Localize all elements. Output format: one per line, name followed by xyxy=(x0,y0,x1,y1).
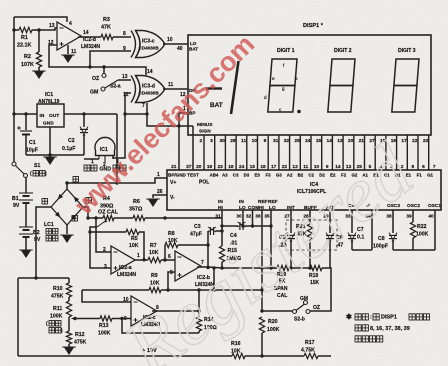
resistor R17 xyxy=(304,353,318,358)
op-amp IC2-b xyxy=(175,251,201,281)
wire R10 to R11 xyxy=(68,297,70,301)
wire R1 left lead xyxy=(14,29,19,31)
wire IC2-b pin5 to y290 rail xyxy=(168,272,175,290)
wire BUFF column xyxy=(309,210,311,224)
IC IC4 box xyxy=(167,170,441,210)
wire IC3-c input pin 9 from feedback net xyxy=(90,51,131,67)
wire INT column xyxy=(290,210,292,233)
node junction bridge-right/rail xyxy=(86,216,89,219)
pot R4 wiper arrow xyxy=(97,221,106,228)
node junction R7/R8 xyxy=(163,258,166,261)
wire IN HI column xyxy=(221,210,223,246)
wire bridge left to divider rail xyxy=(36,207,51,278)
wire R3 to IC3-c input pin 8 xyxy=(113,36,131,38)
resistor R9 xyxy=(149,287,161,292)
wire osc bottom row xyxy=(393,249,435,251)
diode bridge LC1 bottom-right xyxy=(67,207,83,225)
wire IC3-c output pin 10 to display LO BAT pin 40 xyxy=(163,43,188,45)
node junction left rail / V+ feed xyxy=(12,112,15,115)
node junction reflo-col/out-row xyxy=(269,266,272,269)
node junction GND rail xyxy=(48,153,51,156)
capacitor C8 xyxy=(389,234,397,236)
wire IC2-c output row xyxy=(152,310,199,312)
wire bottom +19V rail xyxy=(18,355,232,357)
node junction y67/x90 xyxy=(88,65,91,68)
wire COM column xyxy=(252,210,254,226)
wire bus display to IC4 (22 lines) xyxy=(203,135,205,170)
node junction V+ riser xyxy=(115,181,118,184)
wire R13 to pin 9 xyxy=(112,318,131,320)
display digit 2 eight outline xyxy=(328,59,355,112)
wire divider top rail xyxy=(18,277,69,279)
wire IC2-b output row y268 xyxy=(197,267,277,268)
resistor R1 xyxy=(19,27,32,32)
resistor R15 xyxy=(219,246,224,262)
wire OZ contact branch xyxy=(103,67,105,73)
resistor R4 (pot) xyxy=(103,215,114,220)
switch S1 bottom contact xyxy=(24,174,28,178)
wire S2-b left contact to REF HI column xyxy=(262,310,293,312)
pot R11 wiper arrow xyxy=(72,318,76,320)
capacitor C7 xyxy=(348,234,356,236)
wire IN LO column xyxy=(242,210,244,226)
op-amp IC2-a xyxy=(111,246,135,274)
diode bridge LC1 top-left xyxy=(51,189,67,207)
resistor R11 (pot) xyxy=(66,301,71,317)
node junction R11 wiper xyxy=(73,317,76,320)
node junction x199/y290 xyxy=(197,288,200,291)
node junction reflo top row xyxy=(269,224,272,227)
ground below IC1 xyxy=(45,157,56,165)
wire IC2-d output to R3 xyxy=(78,36,101,38)
wire bridge right to R4 rail xyxy=(83,207,88,218)
wire R18 right to OZ contact column xyxy=(310,268,331,311)
node junction R5 rail tap xyxy=(88,230,91,233)
label TO-92 pinout (chinese) out GND in xyxy=(84,165,90,171)
wire R20 bottom to +19V rail xyxy=(261,333,263,356)
wire bridge bottom to ground xyxy=(66,225,68,234)
resistor R8 left lead xyxy=(164,245,166,260)
switch S2-a lever xyxy=(105,80,118,88)
wire C1 bottom lead xyxy=(25,135,27,155)
wire REF LO column xyxy=(270,210,272,268)
resistor R18 xyxy=(310,265,322,270)
capacitor C2 xyxy=(80,128,88,130)
capacitor C1 xyxy=(20,130,32,132)
wire ground rail C1-C2 xyxy=(26,154,84,156)
capacitor C6 xyxy=(326,234,334,236)
resistor R8 xyxy=(165,242,178,247)
op-amp IC2-d xyxy=(57,22,81,50)
node junction IC2-a out xyxy=(142,258,145,261)
node junction bridge top xyxy=(65,181,68,184)
ground below B2 xyxy=(21,250,32,258)
display digit 1 (one) segment xyxy=(231,61,239,114)
wire left frame vertical xyxy=(17,278,19,356)
switch S2-b lever xyxy=(296,304,305,311)
note line 1 (chinese) - attention DISP1 unused xyxy=(355,314,361,320)
wire S1 to B1 xyxy=(25,177,27,193)
wire OSC3 column xyxy=(392,210,394,233)
wire A/Z column xyxy=(329,210,331,233)
node junction R1/R2 xyxy=(37,28,40,31)
wire top rail from left rail to op-amp IC2-d pin 4 xyxy=(14,17,67,22)
wire R11 to R12 xyxy=(68,317,70,331)
wire R8 right lead to C3 column xyxy=(178,244,208,246)
node junction C1 top xyxy=(24,112,27,115)
switch S1 top contact xyxy=(12,162,16,166)
ground at IC4 V- xyxy=(148,199,159,207)
node junction INT/span row xyxy=(289,266,292,269)
wire R5 feedback rail xyxy=(90,231,126,233)
label R11 (chinese) zero-set line2 xyxy=(49,328,55,334)
wire Cref- column xyxy=(371,210,373,250)
node junction R8 top xyxy=(163,216,166,219)
switch S2-b GM contact xyxy=(304,301,308,305)
node junction x125/y114 xyxy=(123,112,126,115)
node junction IC2-c out/R14 xyxy=(197,309,200,312)
watermark red elecfans xyxy=(68,29,260,221)
wire R2 bottom lead xyxy=(38,67,40,71)
transistor-outline IC1 TO-92 package xyxy=(95,137,115,155)
capacitor C5 xyxy=(287,234,295,236)
capacitor C3 xyxy=(209,227,211,235)
resistor R12 xyxy=(66,331,71,344)
label LC1 (chinese) sensor unit xyxy=(46,229,52,235)
wire OSC2 column xyxy=(412,210,414,222)
pin stubs of TO-92 xyxy=(98,156,100,160)
display digit 1 eight outline xyxy=(268,59,297,112)
display DISP1 box xyxy=(188,35,431,135)
diode bridge LC1 top-right xyxy=(67,189,83,207)
op-amp IC2-c xyxy=(131,296,157,326)
wire tie x125 to x147 xyxy=(125,113,147,115)
resistor R5 xyxy=(126,229,139,234)
wire IC2-c feedback row xyxy=(122,319,199,334)
node junction x214/y290 xyxy=(212,288,215,291)
wire REF HI column long xyxy=(261,210,263,311)
label blue lead (chinese) xyxy=(42,199,48,205)
wire cref bottom row xyxy=(352,249,372,251)
node junction y67/OZ branch xyxy=(102,65,105,68)
wire R12 bottom lead xyxy=(68,344,70,347)
node junction C2 top xyxy=(82,112,85,115)
resistor R20 xyxy=(259,317,264,333)
resistor R19 (pot) xyxy=(277,265,289,270)
node junction BUFF/span row xyxy=(308,266,311,269)
wire left rail vertical xyxy=(13,17,15,162)
node junction ref divider bottom xyxy=(260,354,263,357)
wire V+ rail (bridge top to IC4 pin1) xyxy=(67,178,167,183)
wire B2 to ground xyxy=(25,237,27,250)
label white lead (chinese) xyxy=(72,216,78,222)
resistor R16 xyxy=(232,353,245,358)
wire R4 to R6 xyxy=(114,217,133,219)
wire TO-92 pin1 to C2 column xyxy=(84,158,99,160)
switch S2-a GM contact xyxy=(101,87,105,91)
ground below bridge xyxy=(62,235,73,243)
node junction INHI/C4 row xyxy=(220,224,223,227)
wire R11 wiper to R13 xyxy=(75,318,100,320)
wire R5 to IC2-a output node xyxy=(139,232,144,259)
node junction C3/IN-HI column xyxy=(220,229,223,232)
resistor R21 xyxy=(307,224,312,240)
node junction pin7/x125 tie xyxy=(145,112,148,115)
node junction refhi/s2b xyxy=(260,309,263,312)
resistor R7 xyxy=(148,257,161,262)
wire S2-a common to IC3-d input pin 13 xyxy=(118,79,131,81)
ground at IC2-d pin 11 xyxy=(63,55,74,63)
node junction INLO/C4 row xyxy=(241,224,244,227)
resistor R14 xyxy=(196,317,201,331)
note line 3 (chinese) - tie to case xyxy=(355,336,361,342)
wire IC3-d output pin 11 to display DP pin 12 xyxy=(163,88,188,90)
capacitor C1 top lead xyxy=(25,114,27,130)
wire x214 tie xyxy=(213,268,215,290)
wire OSC1 column xyxy=(434,210,436,250)
wire IC3-d pin 7 to BP net xyxy=(147,103,193,126)
watermark ghost registered xyxy=(108,126,428,366)
node junction left-rail/R1 xyxy=(12,28,15,31)
battery B1 xyxy=(19,192,33,194)
voltage regulator IC1 box xyxy=(37,104,64,127)
node junction R8/C3 column xyxy=(206,243,209,246)
wire display BP net down to IC4 pin 21 xyxy=(178,126,180,170)
node junction out-row/INHI col xyxy=(220,266,223,269)
note line 2 (chinese) - leads 8 16 37 38 39 xyxy=(355,325,361,331)
wire R2 top lead xyxy=(38,30,40,52)
wire IC1 OUT to V+ riser xyxy=(64,113,117,115)
resistor R2 xyxy=(36,52,41,67)
display digit 3 eight outline xyxy=(392,59,419,112)
wire IC2-a output to R7 xyxy=(135,259,148,261)
wire R7 to IC2-b inverting input pin 6 xyxy=(161,259,175,261)
wire sensor rail to R4 xyxy=(88,217,103,219)
label green lead (chinese) xyxy=(86,198,92,204)
node junction refhi/y290 xyxy=(260,288,263,291)
wire bridge top stub xyxy=(66,183,68,189)
wire R14 bottom to feedback row xyxy=(198,331,200,333)
resistor R10 xyxy=(66,283,71,297)
wire R19 to R18 xyxy=(289,267,310,269)
wire IC2-d noninverting input loop to OZ/GM net xyxy=(49,45,146,75)
wire left rail to IC1 IN xyxy=(14,113,37,115)
switch S1 lever xyxy=(16,166,25,175)
label LC1 (chinese) unit xyxy=(46,236,52,242)
wire C4 row xyxy=(222,225,238,227)
wire IC4 V- pin 26 stub xyxy=(153,195,167,198)
wire R6 to IN HI column xyxy=(145,217,222,219)
ground below R2 xyxy=(34,71,45,79)
node junction BP riser xyxy=(177,124,180,127)
wire output node up to y290 rail xyxy=(198,290,200,311)
wire IC3-d input pin 12 down to TO-92 pin 3 column xyxy=(113,93,131,158)
label red lead (chinese) xyxy=(73,177,79,183)
switch S2-a OZ contact xyxy=(102,74,106,78)
resistor R14 top lead xyxy=(198,311,200,317)
wire R15 bottom to out row xyxy=(221,262,223,268)
xor gate IC3-c xyxy=(131,31,165,58)
wire IC2-d pin 11 stub xyxy=(67,45,69,54)
switch S2-b left contact xyxy=(293,310,297,314)
node junction pin9/R13 xyxy=(120,317,123,320)
resistor R3 xyxy=(101,34,113,39)
resistor R6 xyxy=(133,215,145,220)
resistor R22 xyxy=(410,222,415,238)
wire rail y290 left drop to IC2-c pin 10 xyxy=(82,290,131,302)
capacitor C4 xyxy=(239,222,241,230)
diode bridge LC1 bottom-left xyxy=(51,207,67,225)
wire Cref+ column xyxy=(351,210,353,233)
wire B1 to B2 xyxy=(25,203,27,227)
node junction sensor-rail/divider xyxy=(34,276,37,279)
node junction pin5 rail xyxy=(166,288,169,291)
node junction rail-y218/x96 xyxy=(94,216,97,219)
wire R4 wiper to feedback rail xyxy=(90,227,111,268)
wire IC1 GND stub xyxy=(49,127,51,155)
wire BP riser to display pin 1 xyxy=(179,113,188,126)
node junction C4/COM xyxy=(251,224,254,227)
dashed calibration box xyxy=(286,220,337,250)
node junction out-row/C3col xyxy=(206,266,209,269)
wire V+ riser down to V+ rail xyxy=(116,114,118,183)
wire out row to R19 xyxy=(271,267,277,269)
ground below R12 xyxy=(64,347,75,355)
xor gate IC3-d xyxy=(131,76,165,103)
resistor R13 xyxy=(100,316,112,321)
wire R10 top lead xyxy=(68,278,70,283)
wire rail y290 xyxy=(82,289,149,291)
display decimal point xyxy=(297,110,301,114)
wire IC2-a noninverting input from rail y218 xyxy=(96,218,111,252)
node junction out-row/x214 xyxy=(212,266,215,269)
battery B2 xyxy=(19,226,33,228)
wire TEST net down to IC4 pin 37 xyxy=(192,126,194,170)
wire C3 column vertical xyxy=(207,231,209,268)
node junction refhi/y268 xyxy=(260,266,263,269)
display minus sign segment xyxy=(206,87,222,89)
wire R1 to IC2-d inverting input pin 13 xyxy=(32,28,57,30)
switch S2-b right contact xyxy=(306,310,310,314)
